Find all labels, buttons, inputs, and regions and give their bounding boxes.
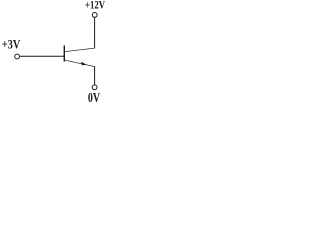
transistor Q1 base bar [64, 46, 65, 62]
svg-text:0V: 0V [88, 90, 100, 103]
wire collector vertical [94, 17, 96, 48]
transistor Q1 emitter arrow [81, 62, 86, 65]
transistor Q1 collector diagonal [65, 48, 95, 52]
svg-text:+12V: +12V [85, 0, 105, 12]
terminal +12V [92, 13, 97, 18]
terminal 0V [92, 85, 97, 90]
transistor Q1 emitter diagonal [65, 60, 95, 67]
wire base [20, 55, 65, 57]
terminal +3V [15, 54, 20, 59]
wire emitter vertical [94, 66, 96, 85]
svg-text:+3V: +3V [2, 37, 21, 52]
